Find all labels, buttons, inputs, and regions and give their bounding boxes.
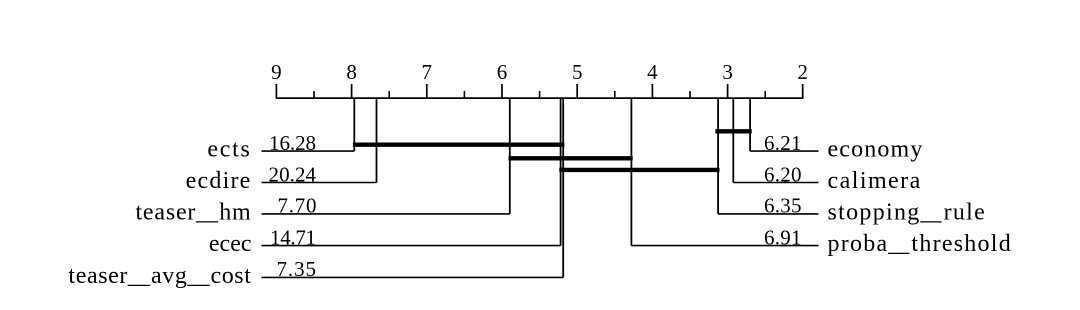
- major tick 9: [275, 84, 277, 99]
- svg-text:6.35: 6.35: [764, 194, 802, 218]
- ecdire drop line: [376, 98, 378, 182]
- svg-text:6.91: 6.91: [764, 225, 802, 249]
- minor tick 8.5: [313, 91, 315, 99]
- svg-text:7.70: 7.70: [278, 194, 317, 218]
- svg-text:5: 5: [572, 60, 583, 84]
- major tick 7: [426, 84, 428, 99]
- major tick 5: [576, 84, 578, 99]
- calimera drop line: [732, 98, 734, 182]
- teaser_hm drop line: [509, 98, 511, 214]
- teaser_avg_cost label line: [262, 276, 564, 278]
- major tick 8: [351, 84, 353, 99]
- ects label line: [262, 150, 355, 152]
- ects drop line: [353, 98, 355, 151]
- economy label line: [750, 150, 818, 152]
- svg-text:stopping_rule: stopping_rule: [828, 199, 987, 225]
- svg-text:ecec: ecec: [209, 231, 252, 257]
- major tick 4: [651, 84, 653, 99]
- svg-text:6.21: 6.21: [764, 131, 802, 155]
- svg-text:7: 7: [422, 60, 433, 84]
- svg-text:20.24: 20.24: [269, 162, 317, 186]
- teaser_avg_cost drop line: [562, 98, 564, 277]
- minor tick 6.5: [463, 91, 465, 99]
- minor tick 3.5: [689, 91, 691, 99]
- svg-text:proba_threshold: proba_threshold: [828, 231, 1012, 257]
- minor tick 7.5: [388, 91, 390, 99]
- svg-text:16.28: 16.28: [269, 131, 316, 155]
- minor tick 5.5: [539, 91, 541, 99]
- major tick 3: [727, 84, 729, 99]
- svg-text:14.71: 14.71: [270, 225, 316, 249]
- major tick 2: [802, 84, 804, 99]
- axis line: [276, 97, 802, 99]
- ecec label line: [262, 245, 561, 247]
- calimera label line: [733, 182, 818, 184]
- clique bar ects-teaser_avg_cost: [353, 142, 565, 146]
- svg-text:8: 8: [346, 60, 357, 84]
- svg-text:7.35: 7.35: [277, 257, 317, 281]
- svg-text:4: 4: [647, 60, 658, 84]
- ecec drop line: [560, 98, 562, 246]
- stopping_rule drop line: [717, 98, 719, 214]
- svg-text:teaser_hm: teaser_hm: [135, 199, 251, 225]
- proba_threshold drop line: [630, 98, 632, 246]
- ecdire label line: [262, 182, 377, 184]
- minor tick 4.5: [614, 91, 616, 99]
- svg-text:teaser_avg_cost: teaser_avg_cost: [68, 263, 251, 289]
- stopping_rule label line: [718, 213, 818, 215]
- svg-text:ecdire: ecdire: [186, 168, 252, 194]
- proba_threshold label line: [631, 245, 818, 247]
- minor tick 2.5: [764, 91, 766, 99]
- major tick 6: [501, 84, 503, 99]
- economy drop line: [749, 98, 751, 151]
- clique bar teaser_hm-proba_threshold: [509, 156, 633, 160]
- svg-text:6.20: 6.20: [764, 162, 802, 186]
- svg-text:9: 9: [271, 60, 282, 84]
- svg-text:calimera: calimera: [828, 168, 922, 194]
- svg-text:economy: economy: [828, 137, 924, 163]
- teaser_hm label line: [262, 213, 510, 215]
- clique bar ecec-stopping_rule: [559, 168, 719, 172]
- svg-text:2: 2: [797, 60, 808, 84]
- svg-text:6: 6: [497, 60, 508, 84]
- svg-text:ects: ects: [207, 137, 251, 163]
- svg-text:3: 3: [722, 60, 733, 84]
- clique bar stopping_rule-economy: [715, 129, 751, 133]
